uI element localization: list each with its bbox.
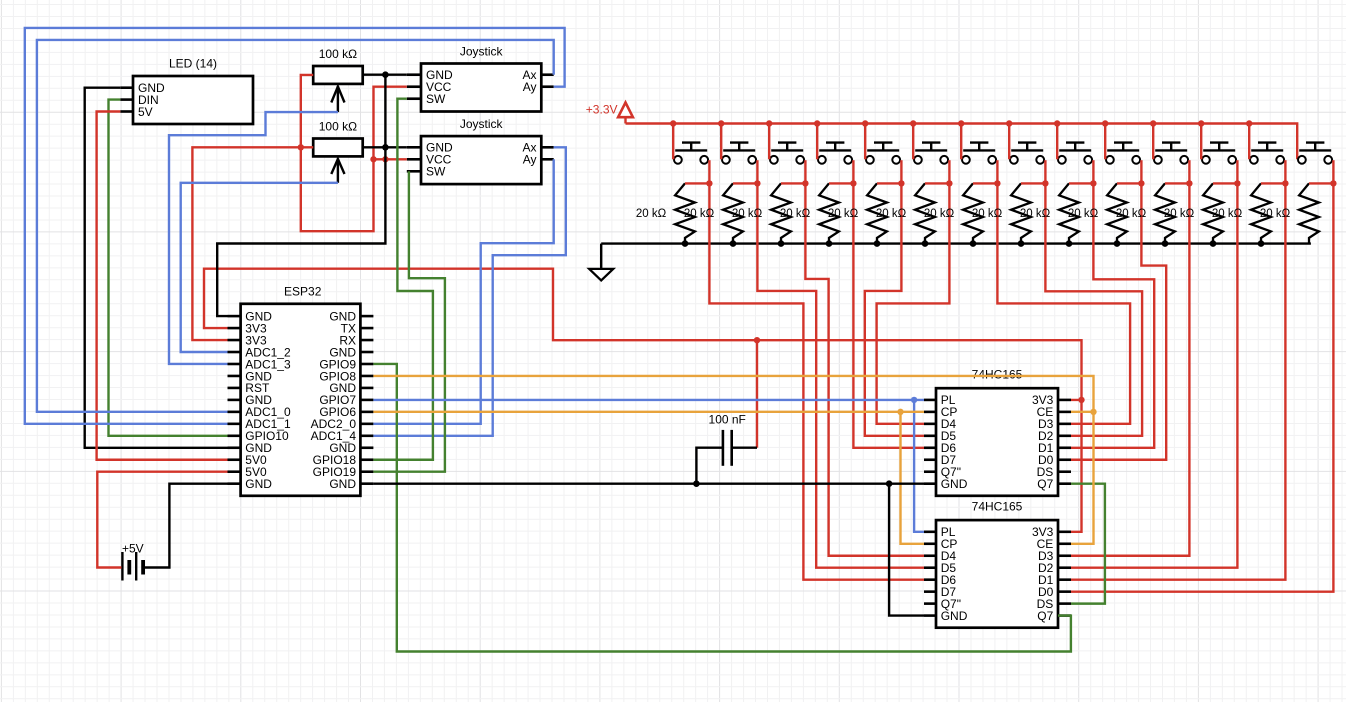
wire 3.3V rail drop to SW4 <box>816 124 818 160</box>
wire SW3 to resistor R5 top <box>781 160 805 183</box>
potentiometer R2 100 kΩ (lower) <box>313 119 363 182</box>
junction SW11/R13 node <box>1186 180 1192 186</box>
junction resistor R10 to ground rail <box>1018 240 1025 247</box>
wire 3.3V rail drop to SW7 <box>960 124 962 160</box>
junction on 3.3V rail at SW1 <box>670 120 676 126</box>
junction SW4/R6 node <box>850 180 856 186</box>
svg-text:20 kΩ: 20 kΩ <box>1020 208 1051 220</box>
wire 3.3V rail drop to SW8 <box>1008 124 1010 160</box>
wire ESP32 3V3 (pin 3) to potentiometers and joystick VCC <box>192 147 313 340</box>
potentiometer R1 100 kΩ (upper) <box>313 47 363 112</box>
wire 3.3V rail drop to SW5 <box>864 124 866 160</box>
wire button SW1 signal to shift register input <box>709 183 924 579</box>
wire J2 Ay to ESP32 ADC2_0 <box>373 159 553 424</box>
junction SW9/R11 node <box>1090 180 1096 186</box>
wire SW12 to resistor R14 top <box>1213 160 1237 183</box>
resistor R12 20 kΩ <box>1068 183 1127 243</box>
svg-text:20 kΩ: 20 kΩ <box>780 208 811 220</box>
wire SW11 to resistor R13 top <box>1165 160 1189 183</box>
svg-text:100 kΩ: 100 kΩ <box>319 47 357 61</box>
wire button SW11 signal to shift register input <box>1071 183 1189 555</box>
pushbutton SW4 <box>818 143 852 164</box>
svg-text:+5V: +5V <box>122 542 144 556</box>
resistor R11 20 kΩ <box>1020 183 1079 243</box>
wire capacitor C1 right lead <box>732 447 757 449</box>
joystick module J2 (lower Joystick) <box>407 117 554 184</box>
junction on 3.3V rail at SW13 <box>1246 120 1252 126</box>
wire button SW5 signal to shift register input <box>865 183 924 435</box>
junction resistor R13 to ground rail <box>1162 240 1169 247</box>
wire ground branch to U3 GND <box>889 484 924 616</box>
wire button SW10 signal to shift register input <box>1071 183 1166 459</box>
wire LED1 DIN to ESP32 GPIO10 <box>109 100 228 436</box>
pushbutton SW2 <box>722 143 756 164</box>
wire SW9 to resistor R11 top <box>1069 160 1093 183</box>
svg-text:LED (14): LED (14) <box>169 57 217 71</box>
ground symbol <box>589 244 613 281</box>
wire SW4 to resistor R6 top <box>829 160 853 183</box>
wire 3.3V rail drop to SW12 <box>1200 124 1202 160</box>
wire capacitor C1 left lead to ground rail <box>696 448 723 484</box>
wire SW5 to resistor R7 top <box>877 160 901 183</box>
junction on 3.3V rail at SW3 <box>766 120 772 126</box>
svg-text:20 kΩ: 20 kΩ <box>1116 208 1147 220</box>
pushbutton SW12 <box>1202 143 1236 164</box>
pushbutton SW8 <box>1010 143 1044 164</box>
svg-text:20 kΩ: 20 kΩ <box>1212 208 1243 220</box>
wire ESP32 GND to U2 GND (main ground) <box>373 482 924 484</box>
wire SW7 to resistor R9 top <box>973 160 997 183</box>
junction SW3/R5 node <box>802 180 808 186</box>
wire 3.3V rail drop to SW9 <box>1056 124 1058 160</box>
wire J2 SW to ESP32 GPIO19 <box>373 171 445 471</box>
junction VCC net at R2 left terminal line <box>298 144 304 150</box>
wire ground rail under resistors <box>601 242 1311 244</box>
wire 3.3V rail drop to SW2 <box>720 124 722 160</box>
wire ESP32 GPIO8 to U3 CE <box>373 376 1093 544</box>
resistor R5 20 kΩ <box>732 183 791 243</box>
junction on 3.3V rail at SW6 <box>910 120 916 126</box>
wire PL branch to U3 PL <box>914 400 924 532</box>
wire 3.3V rail drop to SW3 <box>768 124 770 160</box>
pushbutton SW5 <box>866 143 900 164</box>
wire 3.3V rail drop to SW10 <box>1104 124 1106 160</box>
wire SW13 to resistor R15 top <box>1261 160 1285 183</box>
junction SW10/R12 node <box>1138 180 1144 186</box>
junction 3.3V line to capacitor branch <box>754 337 760 343</box>
svg-text:74HC165: 74HC165 <box>972 368 1023 382</box>
wire SW14 to resistor R16 top <box>1309 160 1333 183</box>
pushbutton SW6 <box>914 143 948 164</box>
junction on 3.3V rail at SW11 <box>1150 120 1156 126</box>
svg-text:20 kΩ: 20 kΩ <box>924 208 955 220</box>
wire button SW6 signal to shift register input <box>877 183 950 423</box>
junction resistor R4 to ground rail <box>730 240 737 247</box>
svg-text:20 kΩ: 20 kΩ <box>732 208 763 220</box>
junction 3V3 at U2 pin 3V3 <box>1078 397 1084 403</box>
wire CP branch to U3 CP <box>901 412 925 544</box>
wire J2 Ax to ESP32 ADC1_4 <box>373 147 565 436</box>
shift register U3 74HC165 (lower) <box>924 500 1071 628</box>
svg-text:20 kΩ: 20 kΩ <box>828 208 859 220</box>
wire R1 wiper to ESP32 ADC1_3 <box>169 112 338 364</box>
junction resistor R7 to ground rail <box>874 240 881 247</box>
wire button SW4 signal to shift register input <box>853 183 924 447</box>
junction resistor R5 to ground rail <box>778 240 785 247</box>
svg-text:Ay: Ay <box>523 80 537 94</box>
junction SW14/R16 node <box>1330 180 1336 186</box>
svg-text:20 kΩ: 20 kΩ <box>876 208 907 220</box>
junction resistor R14 to ground rail <box>1210 240 1217 247</box>
wire SW6 to resistor R8 top <box>925 160 949 183</box>
junction CP net <box>897 409 903 415</box>
wire 3.3V rail drop to SW1 <box>672 124 674 160</box>
resistor R16 20 kΩ <box>1260 183 1319 243</box>
junction on 3.3V rail at SW2 <box>718 120 724 126</box>
junction on 3.3V rail at SW8 <box>1006 120 1012 126</box>
svg-text:GND: GND <box>941 609 968 623</box>
svg-text:20 kΩ: 20 kΩ <box>972 208 1003 220</box>
wire button SW9 signal to shift register input <box>1071 183 1154 447</box>
junction resistor R12 to ground rail <box>1114 240 1121 247</box>
wire SW2 to resistor R4 top <box>733 160 757 183</box>
junction on 3.3V rail at SW9 <box>1054 120 1060 126</box>
svg-text:SW: SW <box>426 165 446 179</box>
wire button SW2 signal to shift register input <box>757 183 924 567</box>
pushbutton SW1 <box>674 143 708 164</box>
svg-text:SW: SW <box>426 92 446 106</box>
resistor R15 20 kΩ <box>1212 183 1271 243</box>
junction resistor R6 to ground rail <box>826 240 833 247</box>
junction resistor R15 to ground rail <box>1258 240 1265 247</box>
svg-text:20 kΩ: 20 kΩ <box>684 208 715 220</box>
wire 3.3V rail drop to SW13 <box>1248 124 1250 160</box>
junction SW8/R10 node <box>1042 180 1048 186</box>
shift register U2 74HC165 (upper) <box>924 368 1071 496</box>
junction ground rail to capacitor <box>693 480 700 487</box>
svg-text:Joystick: Joystick <box>460 117 504 131</box>
wire J1 Ay to ESP32 ADC1_1 (outer loop) <box>25 28 565 424</box>
wire 3.3V rail drop to SW6 <box>912 124 914 160</box>
junction SW5/R7 node <box>898 180 904 186</box>
junction VCC branch at J2 VCC <box>370 156 376 162</box>
junction on 3.3V rail at SW10 <box>1102 120 1108 126</box>
junction on 3.3V rail at SW4 <box>814 120 820 126</box>
wire button SW3 signal to shift register input <box>805 183 924 555</box>
junction on 3.3V rail at SW12 <box>1198 120 1204 126</box>
resistor R4 20 kΩ <box>684 183 743 243</box>
svg-text:5V: 5V <box>138 105 153 119</box>
wire button SW7 signal to shift register input <box>997 183 1130 423</box>
wire ESP32 3V3 (pin 2) to 74HC165 3V3 rail <box>204 269 1082 400</box>
resistor R3 20 kΩ <box>636 183 695 243</box>
wire LED1 GND to ESP32 GND (pin 1) <box>85 88 228 448</box>
pushbutton SW13 <box>1250 143 1284 164</box>
svg-text:GND: GND <box>941 477 968 491</box>
svg-text:100 kΩ: 100 kΩ <box>319 119 357 133</box>
junction R1/J1 GND node <box>382 71 389 78</box>
junction SW7/R9 node <box>994 180 1000 186</box>
wire button SW8 signal to shift register input <box>1045 183 1142 435</box>
junction on 3.3V rail at SW7 <box>958 120 964 126</box>
microcontroller U1 ESP32 <box>228 285 374 496</box>
svg-text:GND: GND <box>245 477 272 491</box>
wire 3.3V branch to capacitor C1 <box>756 340 758 448</box>
junction resistor R11 to ground rail <box>1066 240 1073 247</box>
wire R2 right terminal to J2 GND <box>363 146 407 148</box>
wire ESP32 GPIO7 to U2 PL <box>373 399 924 401</box>
wiper arrow of R2 <box>331 159 344 183</box>
pushbutton SW14 <box>1298 143 1332 164</box>
svg-text:74HC165: 74HC165 <box>972 500 1023 514</box>
svg-text:20 kΩ: 20 kΩ <box>636 208 667 220</box>
wire button SW14 signal to shift register input <box>1071 183 1333 591</box>
pushbutton SW7 <box>962 143 996 164</box>
wire battery + to ESP32 5V0 (pin 14) <box>97 472 227 568</box>
junction on 3.3V rail at SW5 <box>862 120 868 126</box>
wire VCC branch to J2 VCC <box>374 158 407 160</box>
wire J1 Ax to ESP32 ADC1_0 (inner loop) <box>37 40 554 412</box>
resistor R9 20 kΩ <box>924 183 983 243</box>
svg-text:20 kΩ: 20 kΩ <box>1068 208 1099 220</box>
wire button SW12 signal to shift register input <box>1071 183 1237 567</box>
pushbutton SW10 <box>1106 143 1140 164</box>
pushbutton SW3 <box>770 143 804 164</box>
wiper arrow of R1 <box>331 86 344 112</box>
capacitor C1 100 nF <box>709 413 746 466</box>
svg-text:Ay: Ay <box>523 153 537 167</box>
junction SW13/R15 node <box>1282 180 1288 186</box>
pushbutton SW11 <box>1154 143 1188 164</box>
wire SW1 to resistor R3 top <box>685 160 709 183</box>
svg-text:20 kΩ: 20 kΩ <box>1260 208 1291 220</box>
wire SW10 to resistor R12 top <box>1117 160 1141 183</box>
junction resistor R3 to ground rail <box>682 240 689 247</box>
svg-text:Q7: Q7 <box>1037 477 1053 491</box>
svg-text:ESP32: ESP32 <box>284 285 322 299</box>
resistor R10 20 kΩ <box>972 183 1031 243</box>
junction R2/J2 GND node <box>382 144 389 151</box>
svg-text:+3.3V: +3.3V <box>586 102 618 116</box>
svg-text:100 nF: 100 nF <box>709 413 746 427</box>
wire +3.3V rail to pushbuttons <box>626 124 1298 160</box>
LED module LED1 (LED (14)) <box>120 57 253 125</box>
wire R1 right terminal to J1 GND <box>363 73 407 75</box>
junction on J2 VCC lead <box>382 156 388 162</box>
junction SW1/R3 node <box>706 180 712 186</box>
svg-text:20 kΩ: 20 kΩ <box>1164 208 1195 220</box>
resistor R6 20 kΩ <box>780 183 839 243</box>
junction PL net <box>911 397 917 403</box>
pushbutton SW9 <box>1058 143 1092 164</box>
resistor R14 20 kΩ <box>1164 183 1223 243</box>
wire button SW13 signal to shift register input <box>1071 183 1285 579</box>
battery BT1 +5V <box>122 542 144 581</box>
wire R1 left terminal loop <box>301 75 407 231</box>
joystick module J1 (upper Joystick) <box>407 45 554 112</box>
resistor R13 20 kΩ <box>1116 183 1175 243</box>
junction ground rail to U3 branch <box>886 480 893 487</box>
wire U2 Q7 to U3 DS (cascade) <box>1071 484 1105 604</box>
junction resistor R8 to ground rail <box>922 240 929 247</box>
wire battery - to ESP32 GND (pin 15) <box>145 484 228 568</box>
wire ESP32 GPIO9 to U3 Q7 (serial data) <box>373 364 1071 652</box>
junction SW12/R14 node <box>1234 180 1240 186</box>
wire R2 wiper to ESP32 ADC1_2 <box>181 183 338 352</box>
wire CE branch to U2 CE <box>1071 411 1094 413</box>
junction CE net <box>1090 409 1096 415</box>
wire joystick GND bus to ESP32 GND (pin 1) <box>217 75 385 316</box>
svg-text:GND: GND <box>329 477 356 491</box>
wire ESP32 GPIO6 to U2 CP <box>373 411 924 413</box>
svg-text:Joystick: Joystick <box>460 45 504 59</box>
wire 3V3 branch from U2 down to U3 3V3 <box>1071 400 1082 532</box>
power symbol +3.3V <box>586 102 633 123</box>
wire J1 SW to ESP32 GPIO18 <box>373 99 433 460</box>
resistor R7 20 kΩ <box>828 183 887 243</box>
svg-text:Q7: Q7 <box>1037 609 1053 623</box>
junction SW6/R8 node <box>946 180 952 186</box>
wire SW8 to resistor R10 top <box>1021 160 1045 183</box>
junction SW2/R4 node <box>754 180 760 186</box>
resistor R8 20 kΩ <box>876 183 935 243</box>
wire LED1 5V to ESP32 5V0 (pin 13) <box>97 112 228 460</box>
junction resistor R9 to ground rail <box>970 240 977 247</box>
wire 3.3V rail drop to SW11 <box>1152 124 1154 160</box>
